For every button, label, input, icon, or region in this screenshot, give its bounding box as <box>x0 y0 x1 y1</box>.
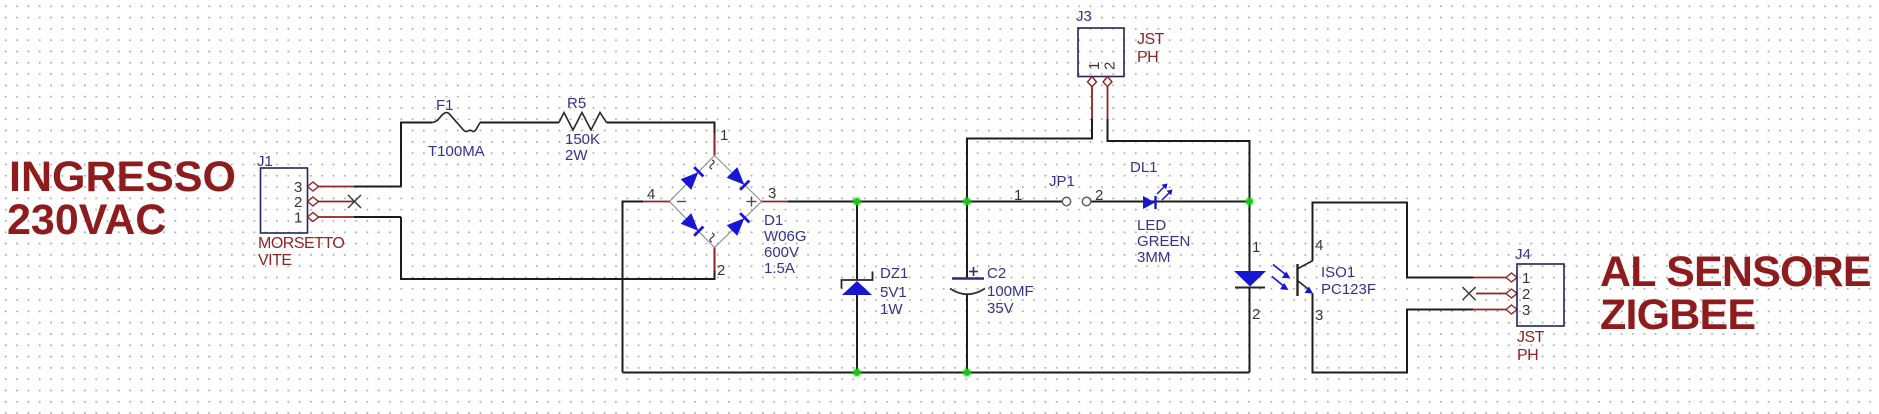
D1 pin numbers <box>647 127 776 279</box>
zener DZ1 drop wire upper <box>856 202 858 281</box>
wire across to bridge pin 2 <box>400 278 716 280</box>
ISO1 phototransistor <box>1298 237 1377 324</box>
wire pin4 to left drop <box>623 201 644 203</box>
D1 diode top-right <box>727 167 750 190</box>
main rail JP1 to ISO corner <box>1091 201 1250 203</box>
svg-text:GREEN: GREEN <box>1137 233 1190 250</box>
svg-text:PC123F: PC123F <box>1321 281 1376 298</box>
D1 diode bottom-left <box>681 213 704 236</box>
svg-text:3: 3 <box>1522 302 1530 319</box>
bottom rail <box>623 372 1250 374</box>
svg-text:J3: J3 <box>1076 8 1092 25</box>
J1 pin 3 diamond <box>308 182 319 191</box>
fuse F1 <box>428 97 485 160</box>
LED DL1 <box>1130 159 1190 266</box>
svg-text:W06G: W06G <box>764 228 807 245</box>
wire J1.3 to corner <box>354 186 401 188</box>
svg-text:3MM: 3MM <box>1137 249 1170 266</box>
D1 diode bottom-right <box>727 212 750 235</box>
J3 pin 2 stub <box>1107 87 1109 120</box>
connector J1 <box>257 153 308 233</box>
J1 pin 1 stub <box>319 216 355 218</box>
J4 pin 2 stub <box>1476 293 1506 295</box>
svg-text:DL1: DL1 <box>1130 159 1158 176</box>
bridge pin 1 stub <box>714 133 716 156</box>
svg-text:JST: JST <box>1517 329 1545 346</box>
svg-text:ZIGBEE: ZIGBEE <box>1600 291 1755 339</box>
J1 value MORSETTO VITE <box>258 235 344 269</box>
svg-text:VITE: VITE <box>258 252 292 269</box>
svg-text:LED: LED <box>1137 217 1166 234</box>
J3 pin 2 diamond <box>1103 77 1112 87</box>
wire J3.1 down and left <box>967 119 1092 202</box>
ISO1 LED lower wire <box>1249 288 1251 373</box>
connector J4 <box>1515 246 1564 326</box>
ISO1 collector net: top edge <box>1313 203 1474 278</box>
svg-text:1: 1 <box>294 210 302 227</box>
bridge pin 3 stub <box>762 201 789 203</box>
svg-text:3: 3 <box>1315 307 1323 324</box>
J3 pin 1 stub <box>1091 87 1093 120</box>
no-connect X on J4 pin 2 <box>1463 287 1476 300</box>
svg-text:4: 4 <box>647 186 655 203</box>
svg-text:1: 1 <box>1014 187 1022 204</box>
title AL SENSORE ZIGBEE <box>1600 248 1871 339</box>
J4 pin 3 diamond <box>1506 305 1517 314</box>
svg-text:INGRESSO: INGRESSO <box>9 153 236 201</box>
DZ1 drop wire lower <box>856 295 858 373</box>
ISO1 LED drop wire <box>1249 202 1251 272</box>
svg-text:1: 1 <box>1522 270 1530 287</box>
J1 pin 2 stub <box>319 201 355 203</box>
D1 polarity marks <box>677 160 757 242</box>
svg-text:2: 2 <box>1252 306 1260 323</box>
svg-text:1: 1 <box>1252 239 1260 256</box>
svg-text:DZ1: DZ1 <box>880 265 908 282</box>
svg-text:1: 1 <box>720 127 728 144</box>
junction node ISO corner <box>1244 196 1254 206</box>
svg-text:1W: 1W <box>880 301 903 318</box>
svg-text:JP1: JP1 <box>1049 173 1075 190</box>
capacitor C2 drop wire upper <box>966 202 968 279</box>
jumper JP1 <box>1014 173 1103 206</box>
svg-text:J1: J1 <box>257 153 273 170</box>
svg-text:5V1: 5V1 <box>880 284 907 301</box>
svg-text:T100MA: T100MA <box>428 143 485 160</box>
J4 pin 1 diamond <box>1506 273 1517 282</box>
svg-text:D1: D1 <box>764 212 783 229</box>
J4 pin 3 stub <box>1473 309 1506 311</box>
J1 pin 1 diamond <box>308 213 319 222</box>
wire to fuse F1 <box>400 122 432 124</box>
wire up to bridge pin 2 <box>714 247 716 280</box>
ISO1 light arrows <box>1272 265 1291 291</box>
wire J1.1 to corner <box>354 216 401 218</box>
svg-text:AL SENSORE: AL SENSORE <box>1600 248 1871 296</box>
J4 pin 2 diamond <box>1506 289 1517 298</box>
junction node DZ1 top <box>852 196 862 206</box>
J3 connector <box>1076 8 1124 77</box>
svg-text:PH: PH <box>1517 347 1538 364</box>
wire F1 to R5 <box>480 122 559 124</box>
J1 pin 2 diamond <box>308 197 319 206</box>
wire J3.2 down and right <box>1108 119 1250 202</box>
J4 pin 1 stub <box>1473 277 1506 279</box>
J4 value JST PH <box>1517 329 1545 364</box>
svg-text:ISO1: ISO1 <box>1321 264 1355 281</box>
svg-text:C2: C2 <box>987 265 1006 282</box>
wire vertical down <box>400 217 402 279</box>
resistor R5 <box>559 95 607 164</box>
svg-text:600V: 600V <box>764 244 799 261</box>
svg-text:4: 4 <box>1315 237 1323 254</box>
title INGRESSO 230VAC <box>7 153 236 244</box>
wire R5 to bridge pin1 corner <box>607 122 715 124</box>
bridge rectifier D1 outline <box>670 156 762 248</box>
svg-text:35V: 35V <box>987 300 1014 317</box>
svg-text:1: 1 <box>1086 62 1103 70</box>
svg-text:150K: 150K <box>565 131 600 148</box>
ISO1 emitter net: bottom edge <box>1313 294 1474 373</box>
wire vertical up to fuse row <box>400 122 402 187</box>
svg-text:JST: JST <box>1137 31 1165 48</box>
svg-text:3: 3 <box>768 185 776 202</box>
svg-text:2: 2 <box>294 194 302 211</box>
J3 pin 1 diamond <box>1088 77 1097 87</box>
bridge pin 2 stub <box>714 247 716 272</box>
junction node DZ1 bottom <box>852 367 862 377</box>
main rail to JP1 <box>788 201 1063 203</box>
J1 pin 3 stub <box>319 186 355 188</box>
D1 labels <box>764 212 807 277</box>
capacitor C2 <box>950 265 1034 317</box>
svg-text:2W: 2W <box>565 147 588 164</box>
svg-text:J4: J4 <box>1515 246 1531 263</box>
svg-text:R5: R5 <box>567 95 586 112</box>
svg-text:2: 2 <box>1095 187 1103 204</box>
svg-text:PH: PH <box>1137 49 1158 66</box>
junction node C2 bottom <box>962 367 972 377</box>
svg-text:MORSETTO: MORSETTO <box>258 235 344 252</box>
C2 drop wire lower <box>966 294 968 373</box>
bridge pin 4 stub <box>643 201 670 203</box>
svg-text:1.5A: 1.5A <box>764 260 795 277</box>
wire left drop down <box>622 201 624 373</box>
J3 value JST PH <box>1137 31 1165 66</box>
svg-text:2: 2 <box>1102 62 1119 70</box>
D1 diode top-left <box>681 166 704 189</box>
svg-text:230VAC: 230VAC <box>7 196 166 244</box>
wire down to bridge pin 1 <box>714 122 716 157</box>
zener DZ1 <box>842 265 909 318</box>
svg-text:100MF: 100MF <box>987 283 1034 300</box>
junction node C2 top <box>962 196 972 206</box>
svg-text:2: 2 <box>1522 286 1530 303</box>
no-connect X on J1 pin 2 <box>348 195 361 208</box>
svg-text:F1: F1 <box>436 97 454 114</box>
svg-text:2: 2 <box>717 262 725 279</box>
ISO1 opto LED <box>1234 239 1266 323</box>
